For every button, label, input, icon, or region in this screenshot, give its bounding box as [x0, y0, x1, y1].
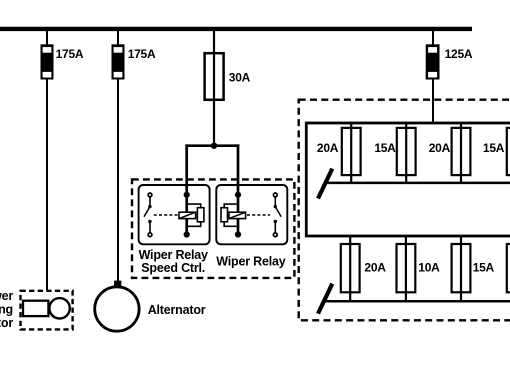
alternator G1 — [95, 287, 139, 331]
label 15A (F8) — [483, 141, 505, 155]
fuse row top feed line — [326, 182, 510, 185]
slash continuation mark top row — [318, 169, 332, 199]
wire F4 to fuse panel — [432, 80, 434, 124]
relay K1 resistor branch — [188, 204, 204, 226]
svg-text:125A: 125A — [445, 47, 473, 61]
wire junction branch bar — [185, 144, 239, 147]
wire bus through fuse F3 to junction — [213, 31, 215, 146]
relay K2 switch wire bottom — [274, 222, 276, 233]
label 20A (F7) — [429, 141, 451, 155]
motor M1 rotor circle — [49, 298, 69, 318]
relay K2 switch terminal bottom — [273, 233, 277, 237]
fuse panel bus frame — [306, 123, 510, 236]
wire bus to fuse F4 — [432, 31, 434, 45]
node junction wiper feed — [211, 143, 217, 149]
svg-text:Wiper Relay: Wiper Relay — [216, 255, 285, 269]
label Alternator — [148, 303, 206, 317]
svg-text:30A: 30A — [229, 71, 251, 85]
relay K1 switch wire top — [149, 197, 151, 206]
wire branch to wiper relay speed ctrl — [185, 144, 188, 234]
fuse F1 175A (mega fuse) — [41, 44, 54, 79]
power bus (battery feed bar) — [0, 27, 472, 31]
label 20A (F9) — [364, 261, 386, 275]
svg-text:Steering: Steering — [0, 303, 13, 317]
power steering motor dashed enclosure — [21, 291, 73, 330]
alternator terminal square — [114, 281, 121, 287]
relay K1 body (Wiper Relay Speed Ctrl.) — [139, 185, 210, 244]
relay module dashed enclosure — [132, 179, 294, 278]
svg-text:15A: 15A — [483, 141, 505, 155]
wire F2 to alternator — [117, 80, 119, 282]
svg-text:Motor: Motor — [0, 316, 13, 330]
fuse F6 15A — [397, 124, 416, 183]
fuse F10 10A — [397, 237, 416, 301]
svg-text:20A: 20A — [364, 261, 386, 275]
relay K1 contact pivot — [148, 205, 151, 208]
fuse F5 20A — [342, 124, 361, 183]
svg-text:Speed Ctrl.: Speed Ctrl. — [141, 261, 205, 275]
relay K1 terminal node top — [184, 192, 190, 198]
label Power Steering Motor (clipped at edge) — [0, 289, 13, 330]
relay K2 body (Wiper Relay) — [216, 185, 287, 244]
label 175A (F1) — [56, 47, 84, 61]
relay K1 switch terminal top — [148, 193, 152, 197]
fuse F8 15A — [507, 124, 510, 183]
label Wiper Relay — [216, 255, 285, 269]
relay K1 actuator dashed link — [154, 214, 179, 216]
svg-text:175A: 175A — [128, 47, 156, 61]
relay K1 coil — [179, 212, 196, 218]
svg-text:175A: 175A — [56, 47, 84, 61]
relay K2 resistor branch — [221, 204, 237, 226]
fuse F9 20A — [341, 237, 360, 301]
relay K2 switch blade — [275, 207, 281, 217]
label 10A (F10) — [418, 261, 440, 275]
fuse F4 125A (mega fuse) — [426, 44, 440, 79]
motor M1 body — [23, 301, 48, 316]
svg-text:15A: 15A — [473, 261, 495, 275]
relay K2 actuator dashed link — [247, 214, 270, 216]
fuse panel dashed enclosure — [299, 100, 510, 321]
label 175A (F2) — [128, 47, 156, 61]
svg-text:Alternator: Alternator — [148, 303, 206, 317]
fuse F7 20A — [452, 124, 471, 183]
slash continuation mark bottom row — [318, 284, 332, 314]
fuse F2 175A (mega fuse) — [112, 44, 125, 79]
wire bus to fuse F2 — [117, 31, 119, 45]
label 15A (F6) — [374, 141, 396, 155]
relay K1 contact lower — [148, 220, 151, 223]
relay K2 terminal node bottom — [235, 231, 241, 237]
relay K1 terminal node bottom — [184, 231, 190, 237]
fuse row bottom feed line — [326, 300, 510, 303]
svg-text:20A: 20A — [317, 141, 339, 155]
fuse F11 15A — [452, 237, 471, 301]
relay K2 switch terminal top — [273, 193, 277, 197]
relay K2 contact pivot — [274, 205, 277, 208]
label 30A — [229, 71, 251, 85]
label 15A (F11) — [473, 261, 495, 275]
relay K1 switch blade — [144, 207, 150, 217]
relay K2 contact lower — [274, 220, 277, 223]
svg-text:20A: 20A — [429, 141, 451, 155]
svg-text:Power: Power — [0, 289, 13, 303]
svg-text:10A: 10A — [418, 261, 440, 275]
relay K1 switch wire bottom — [149, 222, 151, 233]
relay K2 coil — [229, 212, 246, 218]
label Wiper Relay Speed Ctrl. — [139, 248, 208, 275]
svg-text:15A: 15A — [374, 141, 396, 155]
label 125A — [445, 47, 473, 61]
wire bus to fuse F1 — [46, 31, 48, 45]
wire F1 to power steering motor — [46, 80, 48, 291]
fuse F3 30A — [205, 53, 224, 100]
relay K2 switch wire top — [274, 197, 276, 206]
svg-text:Wiper Relay: Wiper Relay — [139, 248, 208, 262]
label 20A (F5) — [317, 141, 339, 155]
relay K1 switch terminal bottom — [148, 233, 152, 237]
wire branch to wiper relay — [237, 144, 240, 234]
fuse F12 (cut off) — [507, 237, 510, 301]
relay K2 terminal node top — [235, 192, 241, 198]
